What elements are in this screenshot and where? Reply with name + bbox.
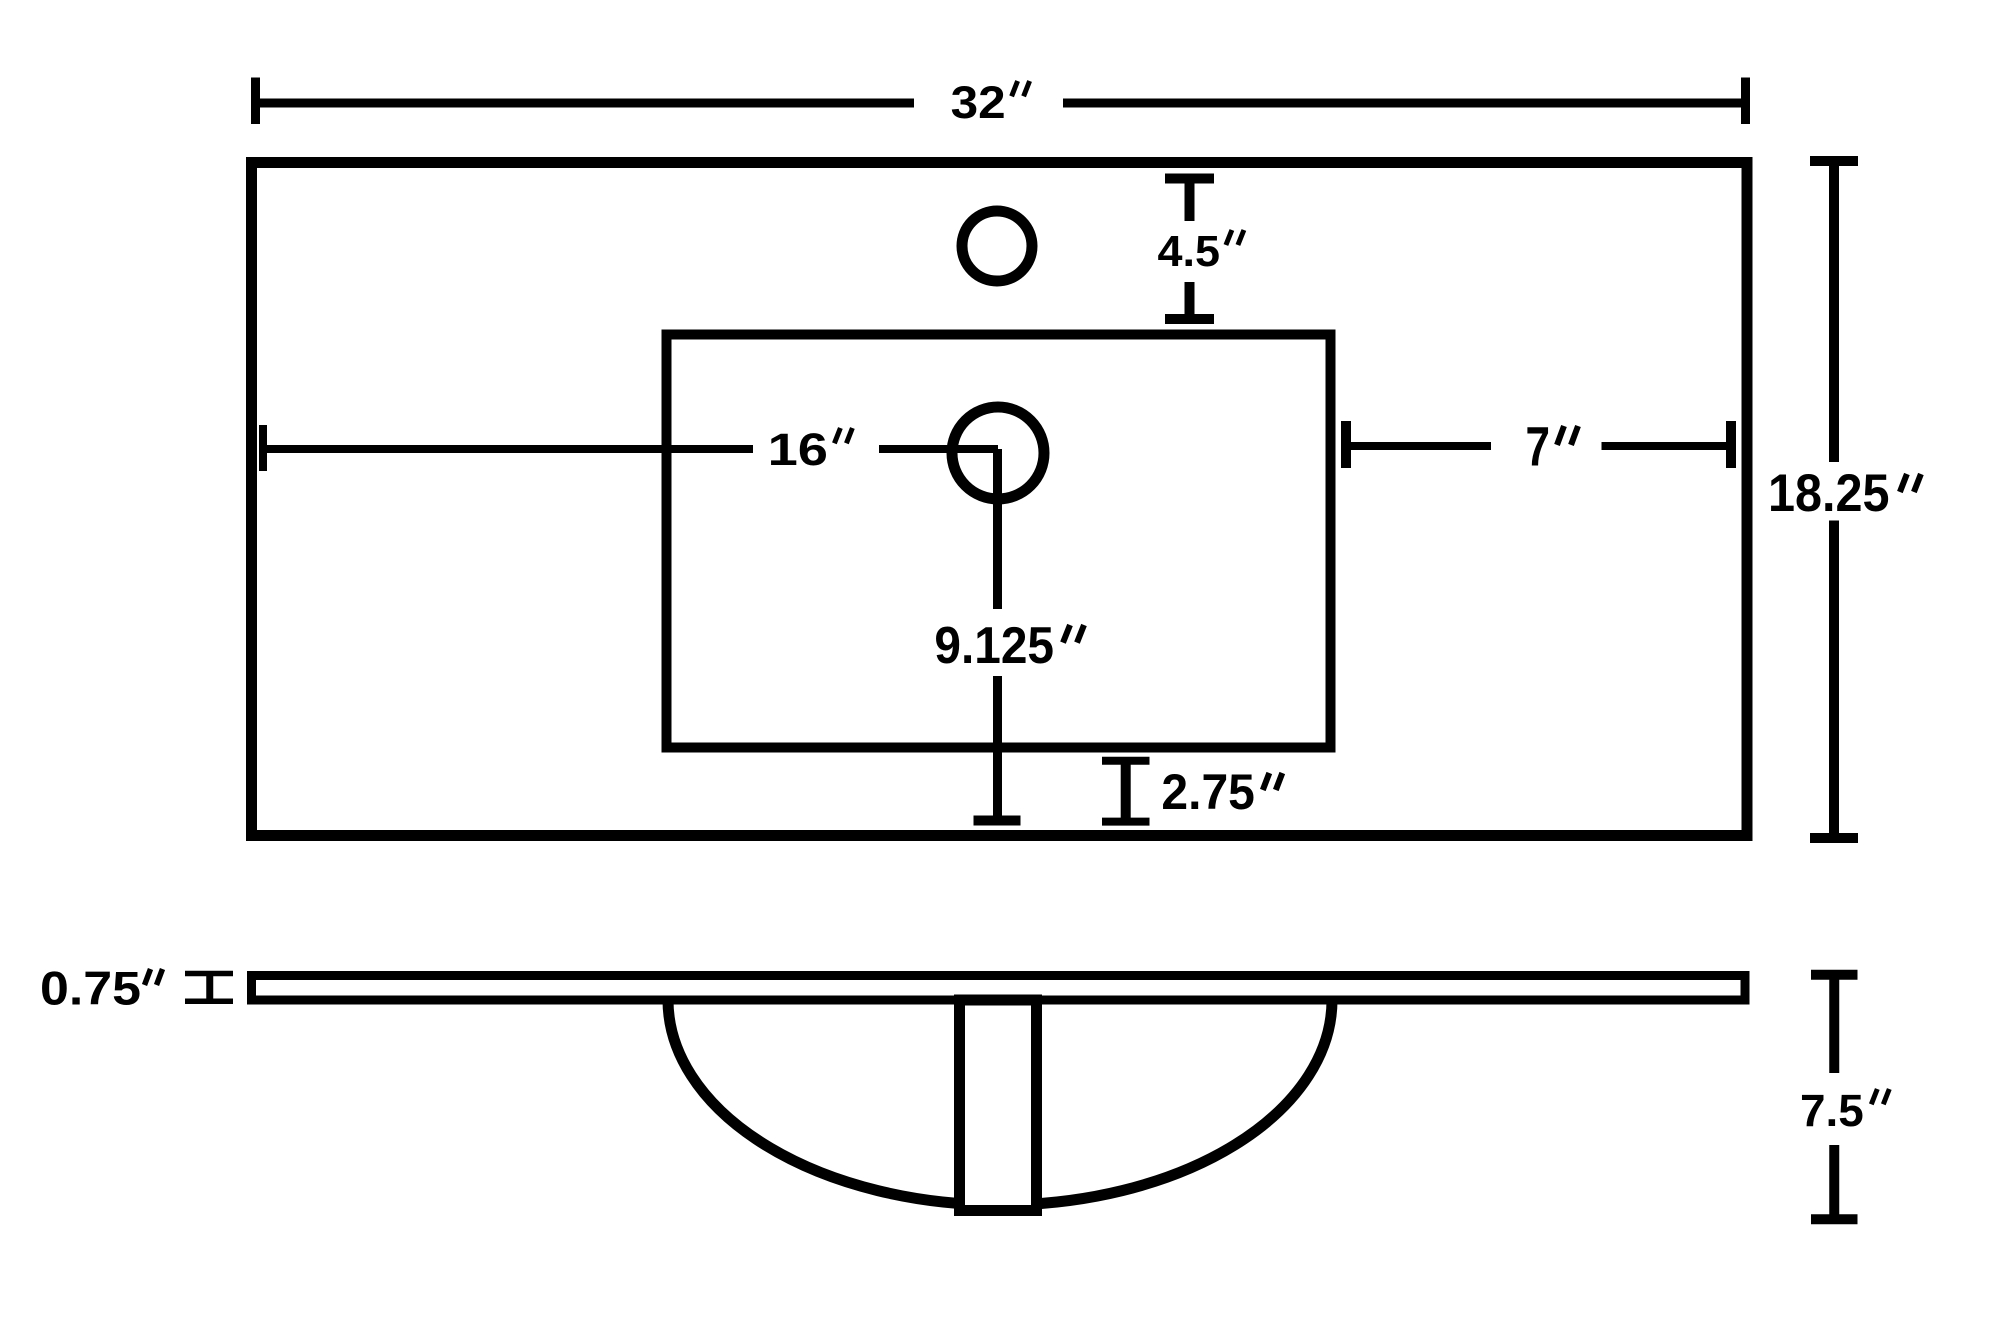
svg-text:9.125: 9.125 xyxy=(934,617,1054,675)
dim 16in inch marks xyxy=(834,428,852,443)
dim 18.25in inch marks xyxy=(1900,474,1921,492)
svg-text:2.75: 2.75 xyxy=(1161,764,1255,820)
svg-text:7.5: 7.5 xyxy=(1800,1085,1864,1136)
svg-text:32: 32 xyxy=(951,77,1006,128)
dim 4.5in inch marks xyxy=(1226,230,1244,245)
dim 32in left tick xyxy=(251,78,260,125)
dim 4.5in stem upper xyxy=(1185,179,1195,222)
dim 2.75in bottom bar xyxy=(1102,818,1150,826)
dim 9.125in stem lower xyxy=(993,676,1002,821)
dim 7in inch marks xyxy=(1557,426,1578,445)
dim 7.5in inch marks xyxy=(1871,1089,1889,1104)
dim 9.125in inch marks xyxy=(1063,625,1084,643)
dim 0.75in inch marks xyxy=(145,969,163,985)
dim 9.125in stem upper xyxy=(993,449,1002,609)
dim 7.5in stem upper xyxy=(1829,975,1839,1073)
dim 2.75in stem xyxy=(1121,761,1131,822)
dim 7.5in bottom bar xyxy=(1811,1214,1858,1224)
dim 2.75in top bar xyxy=(1102,757,1150,765)
dim 32in right tick xyxy=(1741,78,1750,125)
dim 7.5in top bar xyxy=(1811,970,1858,980)
svg-text:0.75: 0.75 xyxy=(40,962,141,1015)
dim 16in line left segment xyxy=(263,445,753,453)
dim 4.5in stem lower xyxy=(1185,282,1195,319)
dim 0.75in tick bottom bar xyxy=(185,999,233,1005)
svg-text:7: 7 xyxy=(1526,415,1551,478)
side view slab xyxy=(252,976,1746,1001)
dim 4.5in top bar xyxy=(1165,174,1214,184)
dim 2.75in inch marks xyxy=(1263,773,1283,790)
svg-text:16: 16 xyxy=(768,424,828,475)
dim 18.25in bottom bar xyxy=(1810,833,1858,843)
dim 0.75in tick top bar xyxy=(185,971,233,977)
svg-text:4.5: 4.5 xyxy=(1158,227,1221,276)
side view bowl xyxy=(668,1000,1332,1205)
dim 18.25in top bar xyxy=(1810,156,1858,166)
dim 32in inch marks xyxy=(1012,81,1030,96)
dim 4.5in bottom bar xyxy=(1165,314,1214,324)
dim 9.125in bottom bar xyxy=(974,816,1021,826)
svg-text:18.25: 18.25 xyxy=(1768,464,1890,523)
countertop outline (top view) xyxy=(252,163,1748,836)
dim 16in line right segment xyxy=(879,445,998,453)
dim 32in line left segment xyxy=(256,99,915,108)
side view drain pipe xyxy=(960,1000,1037,1211)
dim 7in line left segment xyxy=(1346,442,1491,450)
faucet hole xyxy=(962,211,1032,281)
dim 7in left tick xyxy=(1341,421,1351,468)
dim 0.75in tick stem xyxy=(206,974,213,1002)
dim 16in left tick xyxy=(259,425,267,471)
dim 7in line right segment xyxy=(1602,442,1732,450)
sink cutout rectangle xyxy=(667,335,1331,748)
dim 18.25in stem upper xyxy=(1829,161,1839,462)
dim 7.5in stem lower xyxy=(1829,1145,1839,1219)
dim 18.25in stem lower xyxy=(1829,521,1839,839)
dim 7in right tick xyxy=(1726,421,1736,468)
drain hole xyxy=(952,407,1044,499)
dim 32in line right segment xyxy=(1063,99,1746,108)
